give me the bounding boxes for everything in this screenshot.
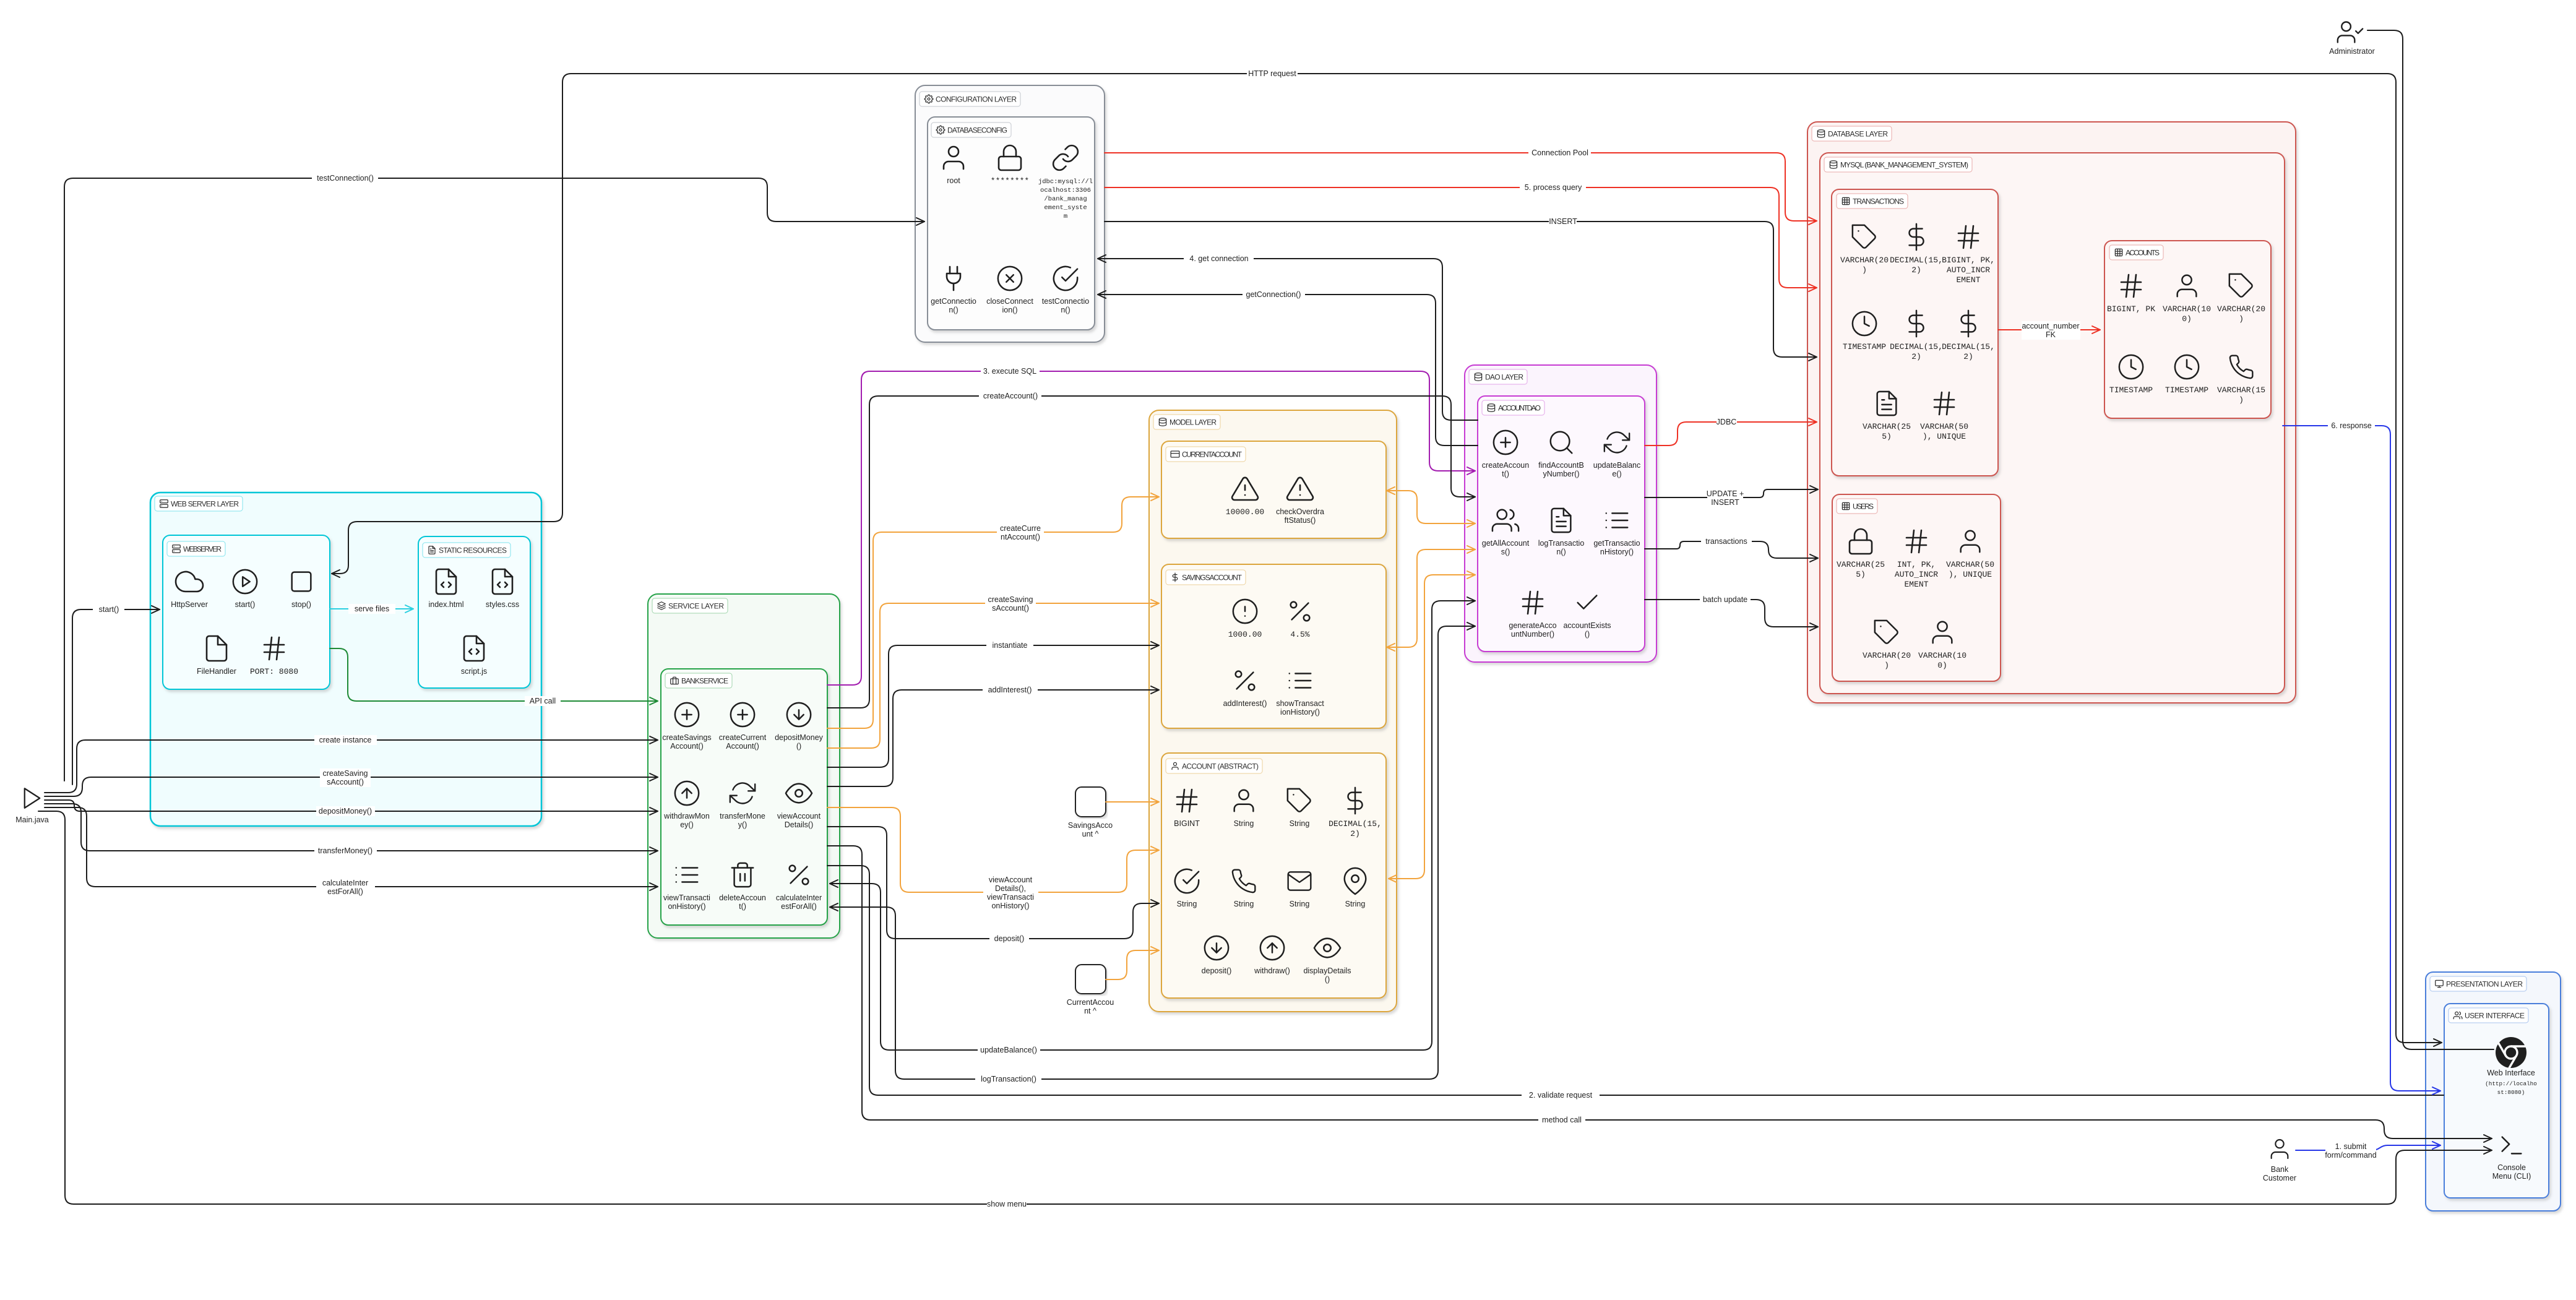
- svg-text:BIGINT: BIGINT: [1174, 819, 1200, 828]
- svg-text:String: String: [1177, 900, 1197, 908]
- icon getTransactionHistory(): [1606, 514, 1628, 528]
- icon styles.css: [493, 569, 512, 594]
- layer box DAO LAYER: [1465, 365, 1656, 662]
- icon VARCHAR(255) description: [1877, 392, 1897, 415]
- icon displayDetails(): [1314, 939, 1340, 958]
- icon String email: [1288, 872, 1311, 890]
- layer box MODEL LAYER: [1149, 410, 1397, 1012]
- svg-text:deposit(): deposit(): [994, 934, 1025, 943]
- wire UPDATE + INSERT: [1645, 489, 1818, 497]
- svg-text:deposit(): deposit(): [1202, 966, 1232, 975]
- svg-text:BIGINT, PK: BIGINT, PK: [2107, 304, 2155, 314]
- svg-text:index.html: index.html: [429, 600, 464, 609]
- svg-text:serve files: serve files: [355, 605, 389, 613]
- svg-text:updateBalance(): updateBalance(): [980, 1046, 1037, 1054]
- icon 4.5%: [1291, 602, 1310, 621]
- svg-text:INSERT: INSERT: [1549, 217, 1577, 226]
- svg-text:4. get connection: 4. get connection: [1189, 254, 1248, 263]
- icon BIGINT: [1177, 790, 1197, 812]
- svg-text:calculateInterestForAll(): calculateInterestForAll(): [776, 893, 822, 911]
- box SAVINGSACCOUNT: [1161, 564, 1386, 728]
- pill BANKSERVICE: [665, 673, 732, 688]
- pill DAO LAYER: [1469, 369, 1527, 384]
- icon VARCHAR(100) fullname: [1933, 622, 1952, 644]
- svg-text:2. validate request: 2. validate request: [1529, 1091, 1593, 1100]
- icon DECIMAL(15,2) amount: [1910, 224, 1924, 250]
- wire transferMoney(): [45, 804, 658, 851]
- svg-text:HTTP request: HTTP request: [1248, 69, 1296, 78]
- box DATABASECONFIG: [928, 117, 1095, 330]
- wire 4. get connection: [1098, 259, 1478, 420]
- wire 3. execute SQL: [827, 371, 1475, 685]
- box ACCOUNTDAO: [1478, 396, 1645, 652]
- icon testConnection(): [1054, 267, 1077, 290]
- svg-text:MYSQL (BANK_MANAGEMENT_SYSTEM): MYSQL (BANK_MANAGEMENT_SYSTEM): [1840, 161, 1968, 170]
- svg-text:viewAccount: viewAccount: [989, 876, 1033, 884]
- wire SavingsAccount ^ to ACCOUNT: [1106, 801, 1159, 803]
- svg-text:addInterest(): addInterest(): [1223, 699, 1267, 708]
- icon PORT: 8080: [264, 637, 284, 660]
- svg-text:String: String: [1290, 819, 1310, 828]
- pill STATIC RESOURCES: [423, 543, 510, 557]
- icon VARCHAR(20) role: [1875, 621, 1898, 644]
- icon viewTransactionHistory(): [676, 868, 698, 882]
- svg-text:CURRENTACCOUNT: CURRENTACCOUNT: [1182, 450, 1243, 459]
- table box ACCOUNTS: [2104, 241, 2271, 418]
- wire updateBalance(): [830, 601, 1475, 1050]
- svg-text:WEBSERVER: WEBSERVER: [183, 545, 222, 554]
- pill WEB SERVER LAYER: [155, 496, 243, 511]
- svg-text:TIMESTAMP: TIMESTAMP: [2165, 385, 2208, 395]
- svg-text:start(): start(): [99, 605, 119, 614]
- wire viewAccountDetails viewTransactionHistory: [827, 807, 1159, 892]
- icon password: [999, 145, 1021, 170]
- svg-text:String: String: [1234, 819, 1254, 828]
- svg-text:viewTransactionHistory(): viewTransactionHistory(): [663, 893, 710, 911]
- icon createSavingsAccount(): [675, 703, 699, 726]
- icon withdrawMoney(): [675, 781, 699, 805]
- pill ACCOUNT (ABSTRACT): [1166, 759, 1262, 773]
- icon TIMESTAMP created: [2119, 355, 2143, 379]
- pill USERS: [1837, 499, 1877, 514]
- icon Web Interface chrome logo: [2496, 1037, 2526, 1068]
- svg-text:BANKSERVICE: BANKSERVICE: [681, 677, 728, 686]
- svg-text:ConsoleMenu (CLI): ConsoleMenu (CLI): [2492, 1163, 2531, 1181]
- icon updateBalance(): [1605, 433, 1629, 453]
- svg-text:create instance: create instance: [319, 736, 372, 744]
- icon Administrator: [2338, 22, 2363, 42]
- svg-text:account_number: account_number: [2022, 322, 2079, 330]
- layer box DATABASE LAYER: [1807, 122, 2296, 703]
- svg-text:1. submit: 1. submit: [2335, 1142, 2367, 1151]
- icon FileHandler: [207, 636, 226, 661]
- svg-text:createAccount(): createAccount(): [983, 392, 1038, 400]
- icon VARCHAR(20) transaction_type: [1853, 225, 1876, 248]
- wire logTransaction(): [830, 626, 1475, 1079]
- layer box CONFIGURATION LAYER: [915, 85, 1105, 342]
- svg-text:VARCHAR(50), UNIQUE: VARCHAR(50), UNIQUE: [1920, 422, 1968, 441]
- svg-text:Administrator: Administrator: [2329, 47, 2375, 56]
- svg-text:depositMoney(): depositMoney(): [319, 807, 372, 816]
- svg-text:4.5%: 4.5%: [1290, 630, 1309, 639]
- svg-text:withdraw(): withdraw(): [1254, 966, 1290, 975]
- svg-text:API call: API call: [530, 697, 556, 705]
- svg-text:DATABASECONFIG: DATABASECONFIG: [947, 126, 1007, 135]
- svg-text:logTransaction(): logTransaction(): [981, 1075, 1036, 1083]
- icon stop(): [292, 572, 311, 592]
- icon BIGINT PK account id: [2121, 275, 2141, 297]
- svg-text:6. response: 6. response: [2331, 421, 2371, 430]
- layer box WEB SERVER LAYER: [150, 493, 541, 826]
- icon VARCHAR(15) phone: [2230, 356, 2252, 379]
- icon String address: [1345, 868, 1366, 894]
- pill USER INTERFACE: [2449, 1008, 2528, 1023]
- icon deleteAccount(): [732, 863, 754, 887]
- svg-text:WEB SERVER LAYER: WEB SERVER LAYER: [171, 500, 239, 509]
- svg-text:stop(): stop(): [291, 600, 311, 609]
- wire 5. process query: [1105, 187, 1817, 288]
- svg-text:findAccountByNumber(): findAccountByNumber(): [1538, 461, 1584, 478]
- icon Bank Customer: [2272, 1140, 2288, 1158]
- svg-text:ACCOUNTS: ACCOUNTS: [2126, 249, 2160, 257]
- icon generateAccountNumber(): [1523, 592, 1543, 614]
- wire transactions: [1645, 541, 1818, 558]
- icon createCurrentAccount(): [731, 703, 754, 726]
- node box SavingsAccount ^: [1075, 787, 1106, 817]
- table box USERS: [1832, 494, 2001, 681]
- icon 10000.00: [1232, 478, 1258, 500]
- icon findAccountByNumber(): [1551, 432, 1572, 454]
- wire createSavingsAccount() to model: [827, 603, 1159, 748]
- icon VARCHAR(20) type: [2229, 274, 2252, 297]
- wire ACCOUNT to ACCOUNTDAO: [1389, 575, 1475, 879]
- svg-text:sAccount(): sAccount(): [327, 778, 364, 786]
- svg-text:DAO LAYER: DAO LAYER: [1485, 373, 1523, 382]
- svg-text:generateAccountNumber(): generateAccountNumber(): [1509, 621, 1556, 639]
- box USER INTERFACE: [2444, 1004, 2549, 1198]
- wire HTTP request: [332, 74, 2442, 1043]
- svg-text:TIMESTAMP: TIMESTAMP: [1843, 342, 1886, 351]
- wire instantiate: [827, 645, 1159, 767]
- box ACCOUNT (ABSTRACT): [1161, 753, 1386, 998]
- svg-text:1000.00: 1000.00: [1228, 630, 1262, 639]
- icon start(): [233, 570, 257, 593]
- icon addInterest(): [1236, 671, 1255, 691]
- icon deposit(): [1205, 936, 1228, 960]
- svg-text:ntAccount(): ntAccount(): [1001, 533, 1040, 541]
- svg-text:JDBC: JDBC: [1717, 418, 1737, 426]
- icon accountExists(): [1578, 596, 1597, 609]
- svg-text:SAVINGSACCOUNT: SAVINGSACCOUNT: [1182, 574, 1243, 582]
- svg-text:testConnection(): testConnection(): [317, 174, 374, 183]
- pill ACCOUNTDAO: [1482, 400, 1544, 415]
- icon getConnection(): [947, 267, 960, 290]
- box CURRENTACCOUNT: [1161, 441, 1386, 538]
- svg-text:transferMoney(): transferMoney(): [318, 846, 373, 855]
- layer box SERVICE LAYER: [648, 594, 840, 938]
- wire start(): [72, 609, 160, 785]
- svg-text:ACCOUNTDAO: ACCOUNTDAO: [1498, 404, 1541, 413]
- icon VARCHAR(50) UNIQUE: [1934, 392, 1954, 415]
- wire 6. response: [2283, 426, 2440, 1091]
- wire SAVINGSACCOUNT to ACCOUNTDAO: [1387, 549, 1475, 647]
- svg-text:TRANSACTIONS: TRANSACTIONS: [1853, 197, 1904, 206]
- icon String accountHolder: [1234, 790, 1254, 812]
- wire 1. submit form/command: [2296, 1145, 2440, 1150]
- svg-text:estForAll(): estForAll(): [327, 887, 363, 896]
- svg-text:viewTransacti: viewTransacti: [987, 893, 1034, 902]
- icon TIMESTAMP updated: [2175, 355, 2199, 379]
- pill SAVINGSACCOUNT: [1166, 570, 1246, 585]
- svg-text:styles.css: styles.css: [486, 600, 519, 609]
- icon root: [944, 147, 963, 169]
- svg-text:form/command: form/command: [2325, 1151, 2376, 1160]
- wire Administrator to Web Interface: [2367, 30, 2494, 1049]
- svg-text:USERS: USERS: [1853, 502, 1874, 511]
- svg-text:PORT: 8080: PORT: 8080: [250, 667, 298, 676]
- svg-text:onHistory(): onHistory(): [991, 902, 1029, 910]
- icon viewAccountDetails(): [786, 784, 812, 803]
- svg-text:String: String: [1234, 900, 1254, 908]
- icon depositMoney(): [787, 703, 811, 726]
- box STATIC RESOURCES: [418, 536, 530, 688]
- svg-text:showTransactionHistory(): showTransactionHistory(): [1276, 699, 1324, 717]
- svg-text:String: String: [1345, 900, 1366, 908]
- svg-text:show menu: show menu: [987, 1200, 1027, 1208]
- pill MYSQL: [1824, 157, 1972, 172]
- svg-text:FileHandler: FileHandler: [197, 667, 236, 676]
- pill DATABASECONFIG: [931, 123, 1011, 137]
- svg-text:TIMESTAMP: TIMESTAMP: [2109, 385, 2153, 395]
- pill WEBSERVER: [167, 541, 225, 556]
- svg-text:createSaving: createSaving: [988, 595, 1033, 604]
- svg-text:HttpServer: HttpServer: [171, 600, 208, 609]
- wire show menu: [38, 811, 2492, 1204]
- box BANKSERVICE: [661, 669, 827, 925]
- wire batch update: [1645, 600, 1818, 627]
- pill DATABASE LAYER: [1812, 126, 1892, 141]
- svg-text:UPDATE +: UPDATE +: [1707, 489, 1744, 498]
- svg-text:5. process query: 5. process query: [1525, 183, 1582, 192]
- icon Console Menu (CLI): [2502, 1137, 2522, 1154]
- icon checkOverdraftStatus(): [1287, 478, 1313, 500]
- icon String status: [1175, 869, 1199, 893]
- wire serve files: [330, 608, 413, 609]
- pill CURRENTACCOUNT: [1166, 447, 1246, 462]
- svg-text:PRESENTATION LAYER: PRESENTATION LAYER: [2446, 980, 2523, 989]
- svg-text:DATABASE LAYER: DATABASE LAYER: [1828, 130, 1888, 139]
- icon DECIMAL(15,2) balance_before: [1910, 311, 1924, 337]
- svg-text:Details(),: Details(),: [995, 884, 1026, 893]
- svg-text:getTransactionHistory(): getTransactionHistory(): [1593, 539, 1640, 556]
- wire INSERT: [1105, 222, 1817, 357]
- wire getConnection(): [1098, 295, 1478, 446]
- wire deposit(): [827, 827, 1159, 939]
- icon DECIMAL(15,2) balance_after: [1962, 311, 1976, 337]
- svg-text:SERVICE LAYER: SERVICE LAYER: [668, 602, 724, 611]
- icon VARCHAR(50) UNIQUE username: [1961, 531, 1980, 553]
- wire createSavingsAccount() from Main: [45, 777, 658, 796]
- svg-text:VARCHAR(50), UNIQUE: VARCHAR(50), UNIQUE: [1946, 560, 1994, 579]
- svg-text:instantiate: instantiate: [993, 641, 1028, 650]
- svg-text:script.js: script.js: [461, 667, 487, 676]
- pill SERVICE LAYER: [652, 598, 728, 613]
- icon Main.java: [25, 788, 40, 808]
- icon BIGINT PK AUTO_INCREMENT: [1958, 226, 1978, 248]
- svg-text:addInterest(): addInterest(): [988, 686, 1032, 694]
- icon 1000.00: [1233, 600, 1257, 623]
- pill TRANSACTIONS: [1837, 194, 1908, 209]
- wire addInterest(): [827, 690, 1159, 786]
- svg-text:getConnection(): getConnection(): [1246, 290, 1301, 299]
- svg-text:********: ********: [991, 176, 1029, 186]
- wire createAccount(): [827, 396, 1475, 708]
- svg-text:MODEL LAYER: MODEL LAYER: [1170, 418, 1217, 427]
- icon VARCHAR(100) holder: [2178, 275, 2197, 297]
- svg-text:3. execute SQL: 3. execute SQL: [983, 367, 1036, 376]
- wire testConnection(): [64, 178, 924, 781]
- wire create instance: [45, 740, 658, 793]
- svg-text:FK: FK: [2046, 330, 2056, 339]
- icon withdraw(): [1260, 936, 1284, 960]
- svg-text:Main.java: Main.java: [15, 816, 49, 824]
- wire calculateInterestForAll(): [45, 807, 658, 887]
- svg-text:sAccount(): sAccount(): [992, 604, 1029, 613]
- wire 2. validate request: [827, 866, 2444, 1095]
- pill ACCOUNTS: [2109, 245, 2163, 260]
- icon calculateInterestForAll(): [790, 866, 809, 885]
- svg-text:start(): start(): [235, 600, 256, 609]
- svg-text:STATIC RESOURCES: STATIC RESOURCES: [439, 546, 507, 555]
- icon logTransaction(): [1552, 509, 1571, 532]
- icon VARCHAR(255) password: [1850, 529, 1872, 554]
- icon INT PK AUTO_INCREMENT: [1906, 530, 1926, 553]
- pill CONFIGURATION LAYER: [920, 92, 1020, 106]
- icon String accountType: [1288, 789, 1311, 812]
- icon createAccount(): [1494, 431, 1517, 454]
- box WEBSERVER: [163, 535, 330, 689]
- icon DECIMAL(15,2): [1348, 788, 1363, 814]
- wire createCurrentAccount(): [827, 497, 1159, 728]
- svg-text:batch update: batch update: [1703, 595, 1747, 604]
- svg-text:createCurre: createCurre: [1000, 524, 1041, 533]
- svg-text:USER INTERFACE: USER INTERFACE: [2465, 1012, 2525, 1020]
- svg-text:ACCOUNT (ABSTRACT): ACCOUNT (ABSTRACT): [1182, 762, 1259, 771]
- icon String phone: [1233, 870, 1255, 893]
- svg-text:root: root: [947, 176, 960, 185]
- wire method call: [827, 846, 2492, 1139]
- icon getAllAccounts(): [1493, 510, 1518, 532]
- wire JDBC: [1645, 422, 1817, 446]
- svg-text:createSaving: createSaving: [323, 769, 368, 778]
- layer box PRESENTATION LAYER: [2426, 972, 2561, 1211]
- icon transferMoney(): [730, 783, 755, 804]
- box MYSQL (BANK_MANAGEMENT_SYSTEM): [1820, 153, 2285, 694]
- node box CurrentAccount ^: [1075, 965, 1106, 994]
- svg-text:method call: method call: [1542, 1116, 1582, 1124]
- svg-text:CONFIGURATION LAYER: CONFIGURATION LAYER: [936, 95, 1017, 104]
- icon closeConnection(): [998, 267, 1022, 290]
- wire Connection Pool: [1105, 153, 1817, 221]
- icon showTransactionHistory(): [1290, 674, 1311, 688]
- icon jdbc url: [1053, 145, 1078, 170]
- pill PRESENTATION LAYER: [2430, 976, 2526, 991]
- icon index.html: [436, 569, 456, 594]
- icon HttpServer: [176, 572, 203, 592]
- icon TIMESTAMP transaction_date: [1853, 312, 1876, 335]
- table box TRANSACTIONS: [1832, 189, 1998, 476]
- wire depositMoney(): [45, 800, 658, 811]
- svg-text:calculateInter: calculateInter: [322, 879, 368, 887]
- svg-text:Web Interface: Web Interface: [2487, 1069, 2535, 1077]
- wire CurrentAccount ^ to ACCOUNT: [1106, 950, 1159, 979]
- icon script.js: [464, 636, 484, 661]
- svg-text:transactions: transactions: [1705, 537, 1747, 546]
- wire API call: [330, 648, 658, 701]
- pill MODEL LAYER: [1153, 415, 1220, 429]
- svg-text:INSERT: INSERT: [1711, 498, 1739, 507]
- wire CURRENTACCOUNT to ACCOUNTDAO: [1387, 491, 1475, 523]
- wire account_number FK: [1998, 329, 2100, 330]
- svg-text:Connection Pool: Connection Pool: [1531, 149, 1588, 157]
- svg-text:String: String: [1290, 900, 1310, 908]
- svg-text:10000.00: 10000.00: [1226, 507, 1264, 517]
